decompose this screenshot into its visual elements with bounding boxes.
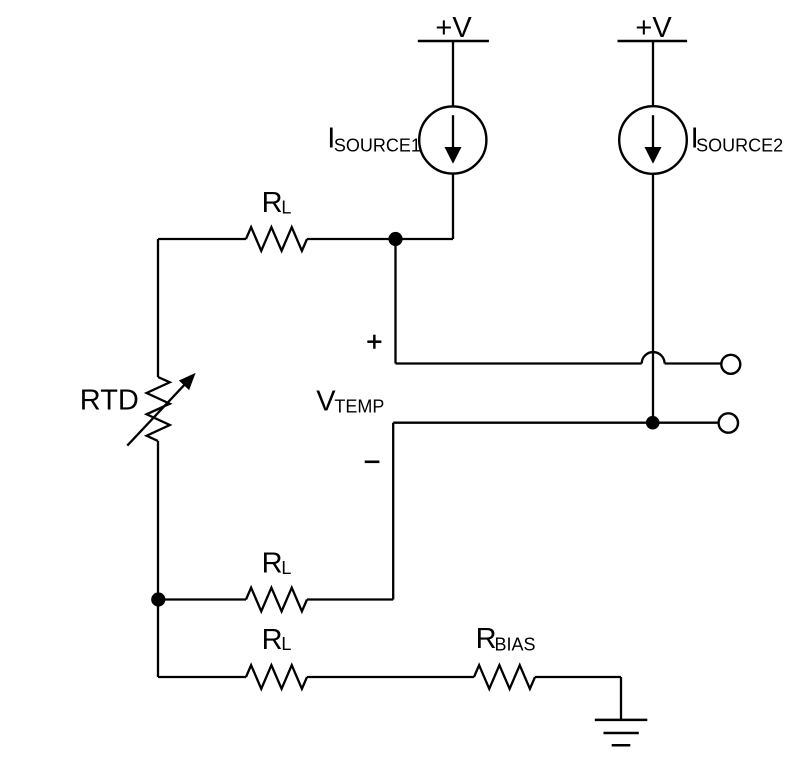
svg-text:VTEMP: VTEMP [316,386,384,418]
resistor RBIAS [474,665,535,689]
wire left vertical from RTD down to bottom node [157,441,159,600]
wire stem from +V rail 2 to current source [652,41,654,107]
wire bottom corner to bottom resistor [158,676,246,678]
wire middle resistor to minus sense corner [307,598,393,600]
wire resistor RL top to node [307,238,396,240]
node junction minus sense with ISOURCE2 [646,416,660,430]
resistor RL (bottom) [246,665,307,689]
svg-text:+V: +V [435,12,472,44]
svg-text:RTD: RTD [80,385,139,417]
wire minus sense vertical [392,423,394,600]
wire bottom resistor RL to RBIAS [307,676,474,678]
wire stem from +V rail 1 to current source [452,41,454,107]
wire plus sense vertical [394,239,396,364]
wire plus sense horizontal from hop to output terminal [665,362,722,364]
current source U1 ISOURCE1 [419,106,486,173]
node junction at top (plus sense tap) [388,232,402,246]
wire node to middle resistor [158,598,246,600]
svg-text:RL: RL [262,624,292,656]
wire from current source 1 down to top node [452,174,454,239]
output terminal minus [719,413,738,432]
power +V rail 2 [618,12,688,44]
svg-text:RL: RL [262,548,292,580]
resistor RL (middle) [246,588,307,612]
RTD variable resistor [127,373,195,446]
ground [595,720,648,745]
wire left vertical from node down to bottom corner [157,600,159,678]
svg-text:RBIAS: RBIAS [476,623,536,655]
wire hop over ISOURCE2 stem [642,352,665,363]
output terminal plus [721,355,740,374]
wire RBIAS to ground corner [535,676,621,678]
wire from current source 2 down to minus junction [652,174,654,423]
wire minus sense horizontal to output terminal [393,422,719,424]
node junction at bottom left [151,592,165,606]
wire ground stem [620,677,622,720]
svg-text:+V: +V [635,12,672,44]
polarity minus sign [365,460,380,463]
svg-text:ISOURCE2: ISOURCE2 [691,123,783,156]
svg-text:ISOURCE1: ISOURCE1 [327,123,421,156]
wire left vertical from top corner down to RTD [157,239,159,377]
wire top horizontal right segment (node to source stem) [396,238,454,240]
polarity plus sign [367,335,381,349]
power +V rail 1 [418,12,489,44]
wire plus sense horizontal to hop [396,362,642,364]
resistor RL top lead-in wire [158,238,246,240]
resistor RL (top) [246,227,307,251]
svg-text:RL: RL [262,187,292,219]
current source U2 ISOURCE2 [619,106,687,174]
